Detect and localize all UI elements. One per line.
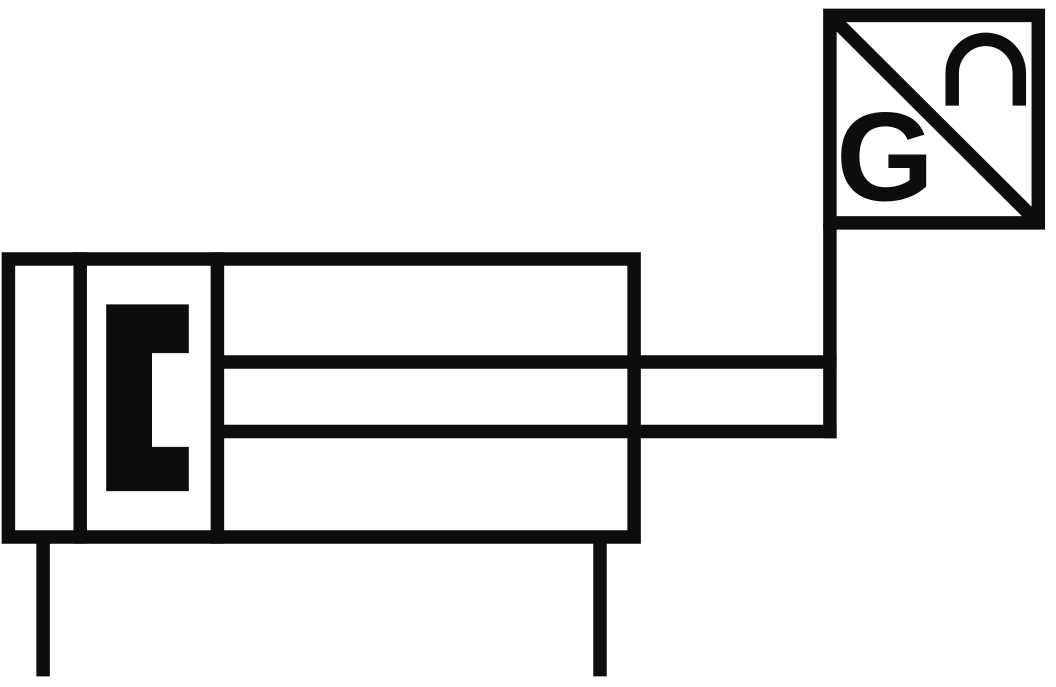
svg-text:G: G [836, 87, 934, 228]
piston rod top line [217, 355, 836, 369]
right port line [593, 537, 607, 676]
piston plate [211, 252, 225, 543]
cylinder left end-cap separator line [73, 252, 87, 543]
rotation horseshoe symbol [952, 39, 1019, 105]
transducer box diagonal [830, 15, 1038, 223]
piston magnet (black C block) [106, 304, 189, 491]
piston rod bottom line [217, 425, 836, 439]
transducer box U1 [830, 15, 1038, 223]
left port line [36, 537, 50, 676]
rod end / riser wire to transducer [823, 223, 837, 438]
cylinder barrel (actuator body) [8, 259, 634, 537]
